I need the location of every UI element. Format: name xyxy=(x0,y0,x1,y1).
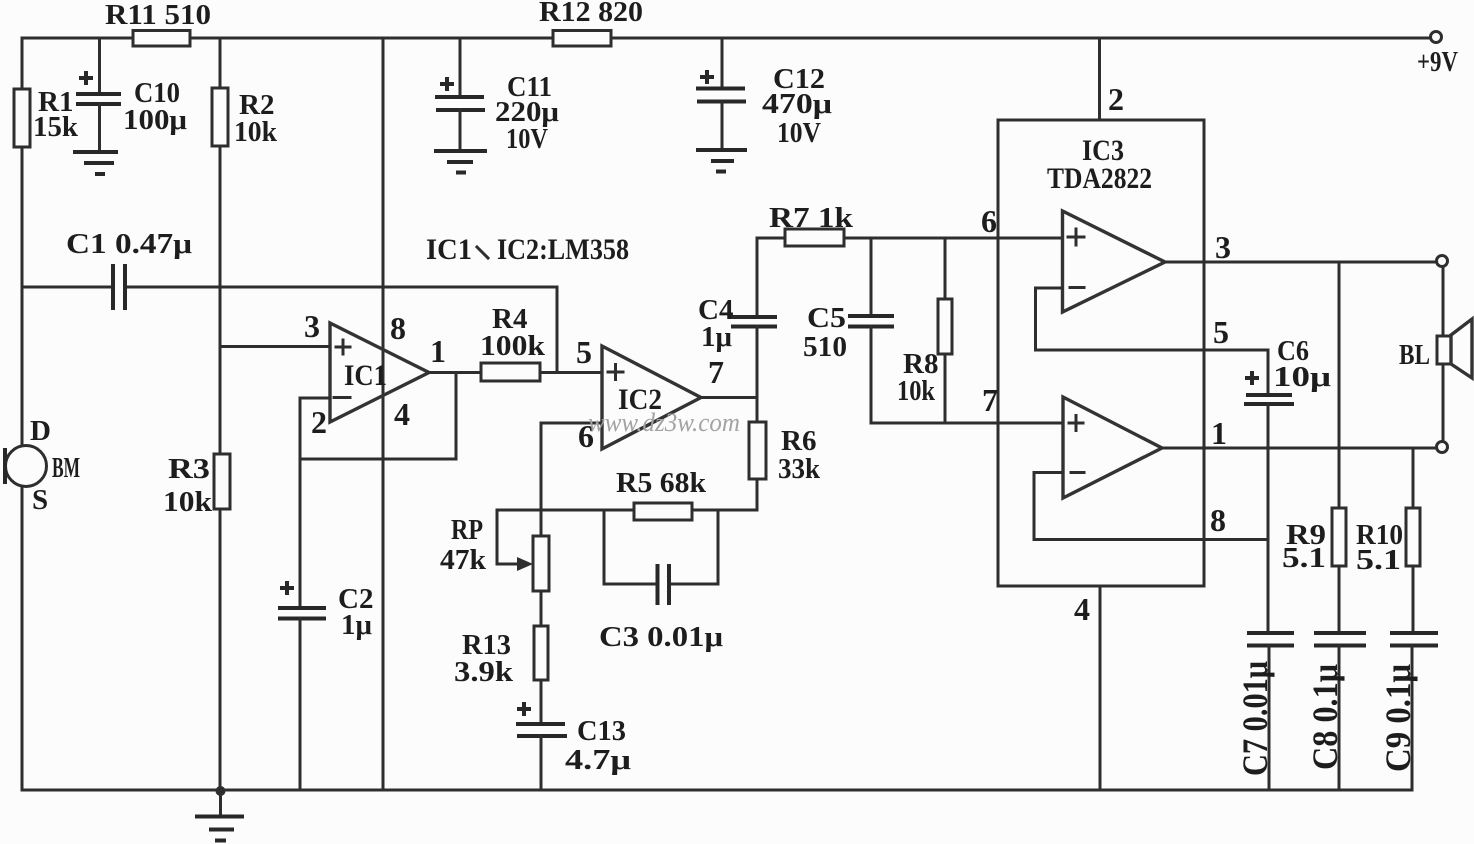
svg-text:BM: BM xyxy=(52,452,80,484)
wiper arrow RP xyxy=(497,510,533,571)
svg-text:100k: 100k xyxy=(480,330,546,362)
wire IC2 pin6 input xyxy=(541,423,602,536)
resistor R11 xyxy=(105,0,211,46)
capacitor C11 xyxy=(435,38,560,155)
wire IC3 pin2 supply xyxy=(1100,38,1125,120)
pin 5 label IC3 xyxy=(1213,314,1229,350)
svg-text:4: 4 xyxy=(394,396,410,432)
node output terminal lower xyxy=(1437,442,1448,453)
node output terminal upper xyxy=(1437,256,1448,267)
pin 1 label IC1 xyxy=(430,333,446,369)
svg-text:4.7μ: 4.7μ xyxy=(565,744,632,776)
svg-text:100μ: 100μ xyxy=(123,104,188,136)
resistor R9 xyxy=(1282,262,1346,630)
svg-text:BL: BL xyxy=(1399,339,1430,371)
svg-text:5.1: 5.1 xyxy=(1282,542,1326,574)
capacitor C4 xyxy=(698,238,777,398)
op-amp IC1 xyxy=(330,323,429,422)
svg-text:D: D xyxy=(30,415,51,447)
capacitor C6 xyxy=(1244,335,1332,633)
resistor R3 xyxy=(163,453,230,518)
svg-text:8: 8 xyxy=(1210,502,1226,538)
svg-text:10k: 10k xyxy=(163,486,213,518)
svg-text:R3: R3 xyxy=(168,453,210,485)
pin 7 label IC3 xyxy=(982,382,998,418)
capacitor C7 xyxy=(1235,633,1294,790)
speaker BL xyxy=(1399,267,1472,442)
ground under C10 xyxy=(73,152,118,174)
svg-text:1: 1 xyxy=(430,333,446,369)
watermark xyxy=(588,408,740,437)
svg-text:C7 0.01μ: C7 0.01μ xyxy=(1235,661,1275,776)
resistor R13 xyxy=(454,626,548,688)
wire RP to R13 xyxy=(540,591,543,626)
wire IC3 lower feedback pin8 xyxy=(1034,473,1268,540)
pin 6 label IC2 xyxy=(578,418,594,454)
capacitor C2 xyxy=(278,459,373,790)
svg-text:5: 5 xyxy=(576,334,592,370)
svg-text:10k: 10k xyxy=(234,116,278,148)
ground under C12 xyxy=(696,150,747,172)
op-amp IC2 xyxy=(602,346,701,449)
svg-text:R7 1k: R7 1k xyxy=(769,202,854,234)
wire IC1 pin2 feedback loop xyxy=(300,373,456,460)
resistor R7 xyxy=(757,202,1062,246)
svg-text:6: 6 xyxy=(981,203,997,239)
svg-text:IC1: IC1 xyxy=(426,233,472,266)
pin 7 label IC2 xyxy=(708,354,724,390)
svg-text:33k: 33k xyxy=(778,453,821,485)
pin 6 label IC3 xyxy=(981,203,997,239)
svg-text:3.9k: 3.9k xyxy=(454,656,514,688)
svg-text:5: 5 xyxy=(1213,314,1229,350)
wire top supply rail xyxy=(22,37,1430,40)
svg-text:TDA2822: TDA2822 xyxy=(1047,162,1152,195)
note IC1 IC2 LM358 xyxy=(426,233,629,266)
potentiometer RP xyxy=(440,514,549,591)
svg-text:C1 0.47μ: C1 0.47μ xyxy=(66,228,193,260)
svg-text:RP: RP xyxy=(451,514,483,546)
svg-text:C5: C5 xyxy=(807,302,846,334)
wire IC2 output xyxy=(701,396,757,399)
svg-text:R11 510: R11 510 xyxy=(105,0,211,31)
ground main xyxy=(195,786,244,841)
svg-text:S: S xyxy=(32,484,48,516)
capacitor C12 xyxy=(696,38,833,149)
wire long vertical bus xyxy=(382,38,385,790)
wire R5 feedback xyxy=(497,509,757,512)
svg-text:3: 3 xyxy=(304,308,320,344)
pin 5 label IC2 xyxy=(576,334,592,370)
svg-text:15k: 15k xyxy=(33,111,79,143)
svg-text:1μ: 1μ xyxy=(341,609,373,641)
resistor R1 xyxy=(14,86,79,147)
capacitor C8 xyxy=(1305,633,1366,790)
svg-text:470μ: 470μ xyxy=(762,88,833,120)
svg-text:C8 0.1μ: C8 0.1μ xyxy=(1305,664,1345,770)
microphone BM xyxy=(5,415,80,516)
wire IC3 pin1 output xyxy=(1162,447,1437,450)
pin 3 label IC1 xyxy=(304,308,320,344)
svg-text:IC1: IC1 xyxy=(344,359,387,392)
wire R2-R3 column xyxy=(219,38,222,790)
ground under C11 xyxy=(434,151,487,173)
pin 8 label IC3 xyxy=(1210,502,1226,538)
capacitor C9 xyxy=(1378,633,1438,790)
svg-text:7: 7 xyxy=(982,382,998,418)
pin 3 label IC3 xyxy=(1215,229,1231,265)
op-amp IC3 lower xyxy=(1063,397,1162,498)
wire IC3 pin4 ground xyxy=(1074,586,1100,790)
svg-text:4: 4 xyxy=(1074,591,1090,627)
svg-text:+9V: +9V xyxy=(1417,46,1458,78)
op-amp IC3 upper xyxy=(1063,211,1166,312)
resistor R12 xyxy=(539,0,643,46)
svg-text:47k: 47k xyxy=(440,544,487,576)
pin 1 label IC3 xyxy=(1211,415,1227,451)
resistor R2 xyxy=(212,88,278,148)
resistor R6 xyxy=(749,398,821,511)
pin 4 label IC1 xyxy=(394,396,410,432)
capacitor C13 xyxy=(516,680,632,790)
resistor R4 xyxy=(480,303,546,381)
svg-text:IC2:LM358: IC2:LM358 xyxy=(497,233,629,266)
svg-text:R5 68k: R5 68k xyxy=(616,467,707,499)
wire left column xyxy=(21,38,24,790)
resistor R8 xyxy=(897,238,952,423)
wire IC3 pin3 output xyxy=(1165,261,1437,264)
svg-text:10V: 10V xyxy=(506,123,548,155)
svg-text:R12 820: R12 820 xyxy=(539,0,643,28)
svg-text:www.dz3w.com: www.dz3w.com xyxy=(588,408,740,437)
capacitor C1 xyxy=(22,228,557,310)
svg-text:510: 510 xyxy=(803,331,847,363)
capacitor C10 xyxy=(76,38,188,151)
pin 8 label IC1 xyxy=(390,310,406,346)
svg-text:8: 8 xyxy=(390,310,406,346)
svg-text:1μ: 1μ xyxy=(701,321,733,353)
wire IC1 pin3 input xyxy=(220,345,330,348)
svg-text:3: 3 xyxy=(1215,229,1231,265)
svg-text:2: 2 xyxy=(1108,81,1124,117)
capacitor C5 xyxy=(803,238,894,423)
svg-text:10V: 10V xyxy=(777,117,821,149)
wire from C1 node down to IC2 input xyxy=(556,287,559,372)
svg-text:C3 0.01μ: C3 0.01μ xyxy=(599,621,724,653)
svg-text:C13: C13 xyxy=(577,715,626,747)
node +9V terminal xyxy=(1417,32,1458,79)
wire IC3 pin7 input xyxy=(871,422,1063,425)
svg-text:7: 7 xyxy=(708,354,724,390)
wire bottom ground rail xyxy=(22,789,1412,792)
svg-text:1: 1 xyxy=(1211,415,1227,451)
pin 2 label IC1 xyxy=(311,404,327,440)
IC3 TDA2822 box xyxy=(998,120,1204,586)
resistor R5 xyxy=(616,467,707,520)
svg-text:10k: 10k xyxy=(897,375,936,407)
wire IC3 upper feedback pin5 xyxy=(1036,288,1269,350)
capacitor C3 xyxy=(599,510,724,653)
svg-text:C9 0.1μ: C9 0.1μ xyxy=(1378,664,1418,772)
resistor R10 xyxy=(1356,448,1420,630)
wire IC1 output xyxy=(429,371,602,374)
svg-text:2: 2 xyxy=(311,404,327,440)
svg-text:5.1: 5.1 xyxy=(1356,544,1401,576)
svg-text:10μ: 10μ xyxy=(1273,361,1332,393)
